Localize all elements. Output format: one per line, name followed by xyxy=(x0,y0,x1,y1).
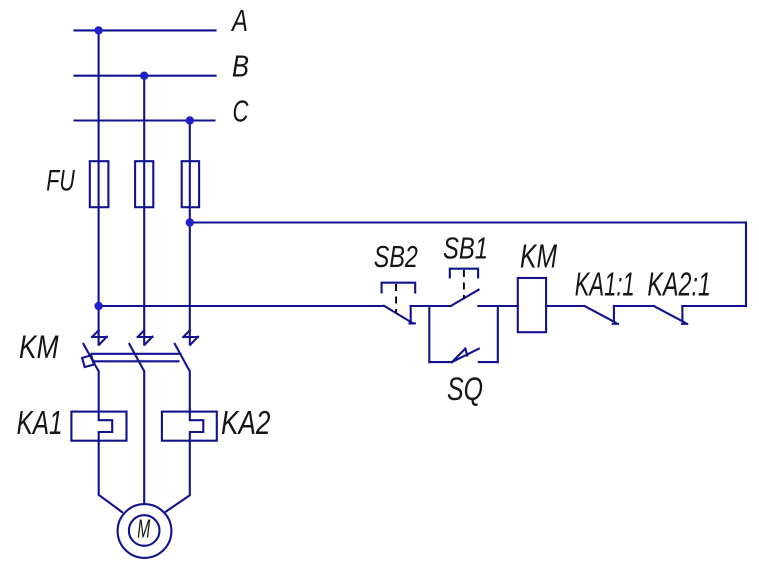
node control top tap xyxy=(186,218,194,226)
motor M inner circle xyxy=(129,515,160,546)
contact KA2:1 fixed terminal xyxy=(681,306,683,321)
contactor KM linkage bar xyxy=(92,353,181,355)
svg-text:KM: KM xyxy=(19,329,59,365)
contact KA1:1 NC blade xyxy=(585,306,616,323)
wire phase line B xyxy=(75,75,216,77)
motor M outer circle xyxy=(118,504,172,558)
node phase C tap xyxy=(186,116,194,124)
pushbutton SB2 NC blade xyxy=(384,306,412,323)
contactor KM blade pole 1 xyxy=(83,344,98,412)
dashed actuator link SB1 xyxy=(463,270,465,299)
contactor KM fixed contact pole 2 xyxy=(138,330,153,344)
svg-text:KM: KM xyxy=(520,237,557,274)
pushbutton SB1 actuator bracket xyxy=(450,269,478,278)
wire KA2:1 to right edge xyxy=(682,305,746,307)
wire phase line A xyxy=(75,29,216,31)
wire branch box bottom right xyxy=(479,361,498,363)
thermal element KA2 box xyxy=(162,412,217,441)
wire pole 2 vertical xyxy=(143,76,145,345)
contactor KM blade pole 3 xyxy=(175,344,190,412)
pushbutton SB2 actuator bracket xyxy=(382,283,416,293)
contactor KM blade pole 2 xyxy=(129,344,144,504)
wire pole 3 vertical xyxy=(189,121,191,345)
wire control circuit top xyxy=(190,223,746,307)
contact KA1:1 fixed terminal xyxy=(613,306,615,321)
svg-text:M: M xyxy=(137,514,150,544)
svg-text:SB2: SB2 xyxy=(374,239,418,274)
dashed actuator link SB2 xyxy=(395,284,397,313)
pushbutton SB2 fixed terminal xyxy=(410,306,412,324)
fuse FU pole 2 xyxy=(135,161,153,207)
node phase A tap xyxy=(94,26,102,34)
wire motor lead right xyxy=(166,441,190,512)
svg-text:KA2:1: KA2:1 xyxy=(647,266,711,303)
wire phase line C xyxy=(75,119,215,121)
contactor KM fixed contact pole 1 xyxy=(92,330,107,344)
fuse FU pole 1 xyxy=(90,161,109,207)
node control bus tap xyxy=(94,302,102,310)
thermal element KA1 heater jog xyxy=(99,412,113,441)
coil KM xyxy=(518,278,546,332)
svg-text:C: C xyxy=(233,93,249,128)
svg-text:KA1:1: KA1:1 xyxy=(575,265,635,302)
pushbutton SB1 NO blade xyxy=(451,290,479,306)
thermal element KA1 box xyxy=(71,412,126,441)
contactor KM fixed contact pole 3 xyxy=(183,330,198,344)
fuse FU pole 3 xyxy=(182,161,199,207)
svg-text:SB1: SB1 xyxy=(443,231,488,266)
wire coil to KA1:1 xyxy=(546,305,585,307)
contact KA2:1 NC blade xyxy=(654,306,685,323)
node phase B tap xyxy=(140,72,148,80)
wire pole 1 vertical xyxy=(98,30,100,344)
thermal element KA2 heater jog xyxy=(190,412,204,441)
wire branch box left xyxy=(428,306,430,362)
wire SB1 to coil xyxy=(478,305,518,307)
svg-text:SQ: SQ xyxy=(447,371,483,407)
wire KA1:1 to KA2:1 xyxy=(614,305,654,307)
limit switch SQ blade xyxy=(452,349,479,363)
contactor KM armature square xyxy=(82,355,94,367)
svg-text:KA2: KA2 xyxy=(221,404,271,441)
wire motor lead left xyxy=(99,441,122,512)
svg-text:A: A xyxy=(230,3,248,38)
svg-text:B: B xyxy=(232,49,249,84)
wire branch box bottom left xyxy=(429,361,452,363)
wire SB2 to branch box xyxy=(411,305,451,307)
svg-text:FU: FU xyxy=(46,165,75,198)
svg-text:KA1: KA1 xyxy=(17,404,63,441)
wire control bus xyxy=(99,305,384,307)
wire branch box right xyxy=(497,306,499,362)
